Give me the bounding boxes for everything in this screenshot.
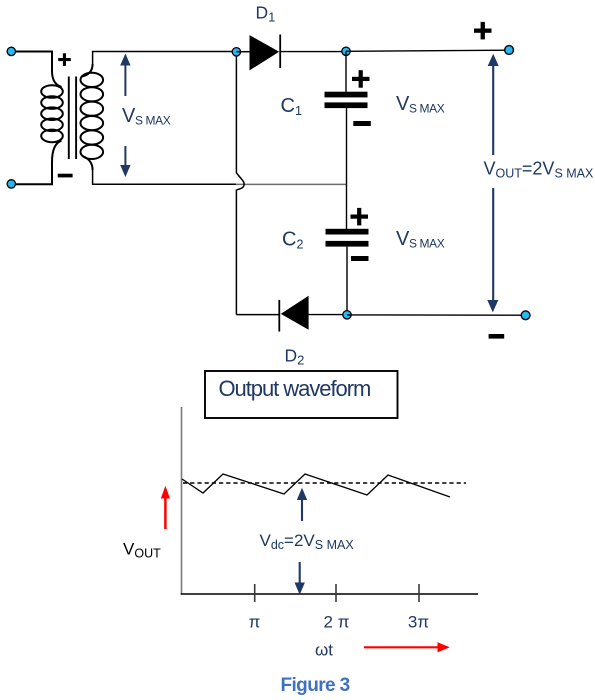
capacitor C1 [325,92,368,98]
svg-text:VS MAX: VS MAX [396,228,445,251]
capacitor C2 [326,229,369,235]
wire D1 to node B [280,51,346,53]
tick pi [254,584,256,602]
svg-text:VOUT: VOUT [123,540,161,561]
wire left vertical to D2 [236,314,279,316]
svg-text:C2: C2 [282,229,303,252]
wire mid rail (gray) to capacitor junction [236,183,346,185]
polarity - (C2) [351,256,369,261]
wire secondary bottom rail (black) [93,170,237,184]
wire node B to + output terminal [346,50,509,51]
svg-text:2 π: 2 π [324,613,350,632]
wire secondary top to node A [93,52,237,67]
polarity + (transformer) [58,53,71,66]
Vs max arrow (secondary) [120,54,130,178]
diode D1 [250,35,280,70]
wire mid junction to C2 [346,184,348,229]
wire C2 bottom to node C [346,247,348,315]
node A [232,48,240,56]
red omega-t axis arrow [364,642,450,652]
svg-text:C1: C1 [281,95,302,118]
svg-text:Output waveform: Output waveform [219,376,371,401]
polarity - (transformer) [58,174,73,178]
wire D2 to node C [309,314,347,316]
polarity - (C1) [353,121,371,126]
x-axis [181,593,478,595]
+ output terminal node [505,46,514,55]
diode D2 [281,296,309,330]
svg-text:ωt: ωt [315,641,333,660]
wire node C to - output terminal [347,314,526,316]
red Vout axis arrow [161,486,170,529]
label Vs max (secondary) white backing [118,96,170,146]
Vout arrow (double headed) [487,54,498,313]
Output waveform box [205,371,398,418]
tick 3pi [418,584,420,602]
y-axis [181,407,183,595]
Vdc arrow down [295,562,305,595]
polarity + (output top) [474,22,492,40]
dashed average line [183,482,466,484]
svg-text:Figure 3: Figure 3 [281,675,350,696]
polarity + (C1) [352,70,370,88]
wire C1 bottom to mid junction [346,108,348,184]
svg-text:VS MAX: VS MAX [396,93,445,116]
polarity - (output bottom) [489,334,505,339]
ripple waveform [182,474,450,497]
svg-text:D1: D1 [256,3,276,25]
primary bottom terminal node [7,180,15,188]
node B [342,47,350,55]
transformer core [68,77,70,160]
primary top terminal node [7,47,15,55]
tick 2pi [335,584,337,602]
- output terminal node [521,311,530,320]
label Vout=2Vs max white backing [481,155,593,188]
svg-text:D2: D2 [285,346,305,368]
node C [343,311,351,319]
wire node A down with hop over mid rail [236,56,244,315]
transformer T1 secondary winding [81,64,104,170]
svg-text:3π: 3π [408,613,429,632]
wire node B down to C1 [345,51,347,92]
transformer T1 primary winding [41,71,63,162]
wire node A to D1 [236,51,249,53]
wire primary top lead [11,52,52,72]
wire primary bottom lead [11,162,52,184]
svg-text:π: π [249,613,261,632]
polarity + (C2) [351,208,369,226]
Vdc arrow up [297,488,307,521]
svg-text:Vdc=2VS MAX: Vdc=2VS MAX [260,531,355,552]
